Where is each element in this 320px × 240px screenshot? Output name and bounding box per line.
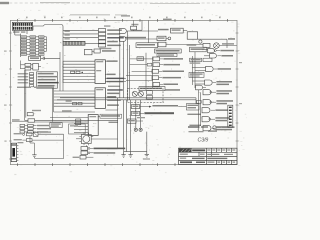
pull-up rail stubs with labels <box>64 31 69 40</box>
wire down to ground from U6 <box>30 136 34 155</box>
long bus wire to center right <box>35 121 118 122</box>
box U16 <box>157 36 171 40</box>
switch box S1 <box>187 43 210 47</box>
connector J1 top-left <box>12 22 32 30</box>
mid label row <box>54 110 95 112</box>
row box B2 <box>131 111 174 115</box>
note text on frame right <box>163 19 172 20</box>
U10 output net labels <box>107 89 123 106</box>
gate U15 <box>119 37 157 42</box>
junction circles under buses <box>134 128 142 131</box>
ground symbol center 2 <box>128 152 132 158</box>
wire jumper top of pull-up rail <box>33 25 63 42</box>
left margin zone text row <box>17 87 54 88</box>
input line row B <box>14 139 64 142</box>
svg-text:C3/9: C3/9 <box>198 138 209 144</box>
vertical bus x146 <box>146 53 153 90</box>
capacitor C1 <box>41 57 60 60</box>
U6 wires and labels <box>25 125 51 133</box>
net stub label near bus <box>105 110 118 123</box>
signal name texts <box>18 73 59 87</box>
wire J1 to ladder bus <box>15 30 27 57</box>
U11 output label <box>98 114 121 118</box>
vertical feed bus right column upper <box>192 50 209 88</box>
ladder interconnect wires <box>21 37 47 54</box>
gate cluster U3 rows <box>25 63 38 70</box>
ff U25 row2 <box>197 100 233 105</box>
gate input feed wires <box>130 59 153 71</box>
U9 output wires <box>105 61 126 81</box>
RC filter R2 C2 <box>71 71 83 73</box>
ff U25 row5 <box>203 126 232 131</box>
left net label box for ff column <box>186 104 201 126</box>
ff U25 row1 <box>203 90 232 95</box>
J2 label <box>17 142 23 143</box>
gate stack U27 <box>80 147 90 159</box>
title block company logo text <box>192 149 205 151</box>
debounce box U2 <box>29 56 41 60</box>
IC U10 <box>95 88 105 109</box>
gate U13 <box>119 28 158 33</box>
right edge connector J3 <box>228 105 233 127</box>
row box B1 <box>131 105 178 109</box>
wire row into U5 <box>12 119 28 122</box>
note text above frame center <box>121 15 130 16</box>
J1 pin stub labels <box>13 31 25 32</box>
wire bus rows to U7 <box>63 30 98 37</box>
vertical bus pair from name table <box>52 88 53 121</box>
option boxes row <box>190 58 212 64</box>
mid-right header label box <box>155 49 182 57</box>
gate rows U6 <box>20 124 33 133</box>
gate pair U12 before U11 <box>76 119 81 125</box>
net label mid top <box>158 29 169 31</box>
buffer pair U8 <box>84 49 115 55</box>
RC filter R3 <box>66 100 82 104</box>
wire B1 row to ff label box <box>178 106 186 108</box>
bottom-center outline box <box>69 124 86 134</box>
ff U25 row4 <box>202 117 230 122</box>
driver label box <box>136 43 158 48</box>
input line row A with inverter bubble <box>14 131 64 136</box>
wire drops from top frame <box>131 21 149 43</box>
lamp DS1 <box>199 40 202 43</box>
gate column U19 row5 <box>126 81 178 87</box>
long horizontal bus pair center <box>57 98 196 100</box>
ff U25 row3 <box>202 108 228 113</box>
gate column U19 row3 <box>152 69 184 73</box>
center vertical buses top segment <box>120 31 130 100</box>
vertical feed lines for ff column <box>196 90 201 131</box>
signal rows with small buffers <box>29 73 33 87</box>
wires U3 <box>21 61 42 70</box>
vertical rail stubs right of name table <box>60 45 63 91</box>
net label box right of U5 <box>50 123 62 128</box>
wire RN1 to U7 <box>85 42 98 44</box>
wire socket to U27 and right <box>76 139 118 147</box>
small box U18 <box>137 57 144 61</box>
U11 input wires <box>50 117 88 132</box>
gate column U19 row4 <box>126 76 181 80</box>
IC U9 <box>95 60 105 84</box>
IC U11 <box>88 115 98 136</box>
gate U23 <box>205 80 232 85</box>
gate column U19 row1 <box>153 57 183 61</box>
title block small field texts <box>180 149 236 163</box>
ground symbol center 1 <box>121 152 125 158</box>
U10 input wires <box>54 91 95 106</box>
gate U4 top <box>27 110 41 116</box>
U27 net labels <box>73 148 126 158</box>
U9 input wires <box>63 61 95 82</box>
signal name table box <box>37 72 58 88</box>
gate U5 <box>28 119 35 122</box>
gate U21b <box>210 54 233 58</box>
right column header box <box>190 47 207 52</box>
gate U21a <box>208 48 234 52</box>
bottom label box mid-right <box>139 87 165 91</box>
title block hatched revision cell <box>179 149 191 152</box>
resistor network RN1 <box>63 41 85 45</box>
pull-up box R4 <box>131 21 139 32</box>
ladder value smudges <box>22 36 43 54</box>
dashed enclosure K2 <box>127 88 180 102</box>
U9 output net labels <box>107 60 125 87</box>
gate U22 <box>206 66 231 71</box>
resistor ladder rows (left column gates) <box>21 36 44 56</box>
center vertical buses lower segment <box>107 98 147 152</box>
gate column U19 row2 <box>147 63 180 67</box>
caps inside K2 <box>146 91 152 99</box>
option label box 2 <box>189 72 204 77</box>
crystal Y1 inside K2 <box>132 91 143 96</box>
relay socket XK1 <box>79 133 93 146</box>
ground symbol center 3 <box>143 152 150 160</box>
gate U24 <box>196 85 206 90</box>
note row above title block <box>188 126 235 133</box>
timer box U14 <box>171 28 188 33</box>
box U17 <box>158 42 203 47</box>
label above gate U13 <box>104 25 110 26</box>
wire ground rail to right <box>34 134 63 158</box>
row box B3 <box>127 117 145 123</box>
relay box K1 <box>187 32 235 48</box>
ground symbol lower left <box>32 155 36 158</box>
U7 output net labels <box>99 29 146 49</box>
title block outline <box>179 148 238 164</box>
connector J2 bottom-left <box>11 143 18 161</box>
vertical bus pair left <box>25 70 26 120</box>
lower-left cluster label <box>12 119 20 120</box>
motor symbol M1 <box>214 43 237 49</box>
buffer stack U7 <box>98 29 105 47</box>
